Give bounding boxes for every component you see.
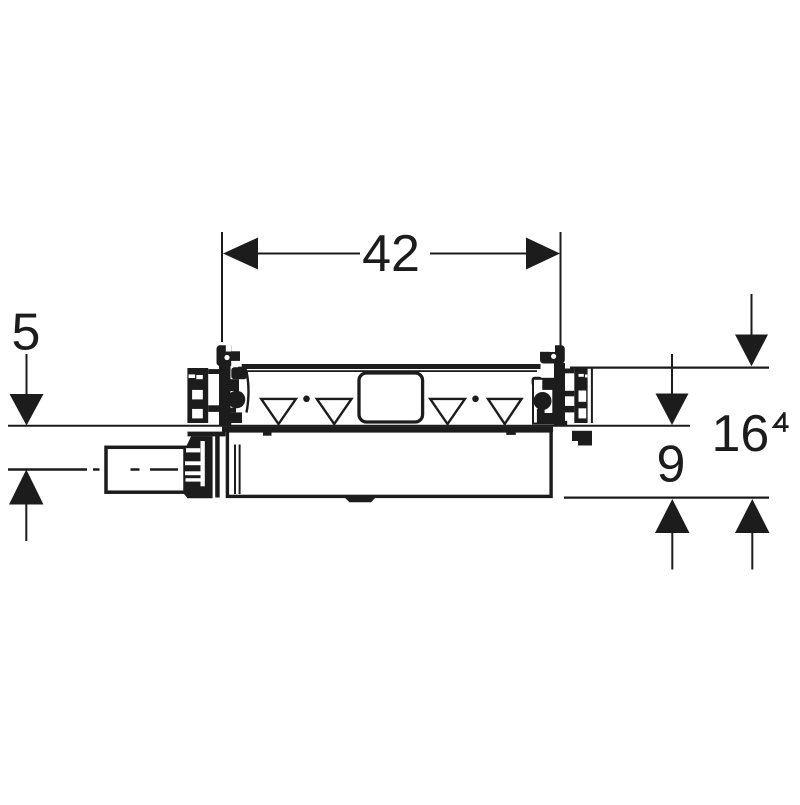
left bracket plate top piece	[231, 367, 247, 379]
housing bottom bump	[342, 495, 378, 502]
bottom extension line	[564, 497, 769, 499]
left bracket knob corner cut bottom	[231, 361, 242, 367]
finished floor reference line	[8, 425, 690, 427]
left bracket vertical bar	[219, 366, 231, 426]
fitting slit 2	[185, 461, 201, 465]
upper frame bottom edge	[222, 427, 553, 433]
funnel triangle 2	[317, 399, 352, 424]
fitting slit 1	[186, 448, 200, 452]
dimension 42 right arrowhead	[526, 238, 560, 270]
left bracket lower blob	[229, 412, 242, 423]
fitting coupling ring	[215, 433, 220, 498]
dimension 164 superscript	[774, 412, 788, 432]
dimension 164 upper arrow tail	[751, 294, 753, 336]
left rail slit b	[196, 375, 203, 379]
dimension 9 lower tail	[671, 533, 673, 570]
dimension 164 lower tail	[751, 533, 753, 570]
right bracket wall rail	[574, 368, 587, 423]
right bracket vertical bar	[554, 363, 565, 426]
dimension 42 right extension line	[560, 232, 562, 347]
dimension 5 arrow tail	[26, 354, 28, 397]
dimension 164 top extension line	[570, 367, 769, 369]
left bracket wall rail	[187, 368, 208, 423]
right bracket knob dot	[551, 354, 556, 359]
right bracket hinge circle	[534, 392, 552, 410]
dimension 42 line right segment	[430, 253, 528, 255]
right bracket bolt	[532, 377, 543, 387]
dimension 164 down arrowhead	[735, 335, 768, 367]
right rail hole 2	[579, 408, 587, 418]
housing seam line 1	[234, 445, 236, 495]
right bracket plate outline	[533, 379, 553, 424]
lower housing	[227, 431, 551, 497]
inspection window	[359, 373, 423, 422]
right bracket knob notch	[550, 344, 555, 352]
upper frame inner line	[237, 370, 537, 372]
svg-text:42: 42	[362, 225, 420, 283]
fitting slit 4	[186, 478, 204, 481]
right bracket foot	[572, 431, 592, 441]
left rail hole 2	[192, 409, 203, 419]
right rail lip line	[591, 369, 593, 424]
right bracket knob corner cut	[538, 343, 550, 352]
funnel triangle 1	[261, 399, 296, 424]
right bracket bridge mid	[565, 391, 575, 397]
supply pipe	[106, 447, 185, 492]
right bracket top arm	[542, 378, 553, 390]
right bracket bridge top	[565, 369, 575, 374]
right bracket bridge low	[565, 406, 575, 413]
left bracket bridge mid	[208, 405, 220, 412]
right rail slit a	[579, 374, 584, 377]
funnel triangle 4	[488, 399, 522, 424]
dimension 5 lower tail	[25, 504, 27, 541]
dimension 9 up arrowhead	[655, 499, 690, 533]
left bracket knob corner cut top	[231, 344, 242, 352]
right rail hole 1	[579, 391, 587, 402]
left bracket knob notch	[226, 344, 231, 352]
rivet dot right	[472, 396, 479, 403]
left rail hole 1	[192, 390, 203, 400]
dimension 9 arrow tail	[671, 354, 673, 394]
left bracket right curve	[247, 372, 249, 413]
svg-text:16: 16	[712, 405, 770, 463]
right bracket foot step	[578, 441, 592, 446]
upper frame top edge	[238, 364, 541, 369]
left bracket pivot arm	[226, 379, 239, 391]
funnel triangle 3	[430, 399, 465, 424]
pipe centerline	[8, 468, 178, 470]
left bracket knob	[217, 345, 241, 366]
frame foot tab left	[263, 430, 272, 435]
svg-text:9: 9	[657, 436, 686, 494]
left rail slit a	[189, 374, 196, 378]
frame foot tab right	[506, 430, 516, 435]
dimension 164 up arrowhead	[735, 499, 770, 533]
dimension 42 left extension line	[221, 232, 223, 342]
right bracket lower blob	[537, 413, 554, 423]
drain fitting body	[184, 436, 213, 498]
left bracket hinge circle	[228, 391, 246, 409]
right bracket below-circle piece	[537, 409, 545, 414]
housing seam line 2	[239, 445, 241, 495]
right rail slit b	[585, 375, 587, 378]
svg-text:5: 5	[12, 304, 41, 362]
dimension 9 down arrowhead	[656, 394, 689, 426]
dimension 5 down arrowhead	[10, 394, 44, 426]
rivet dot left	[303, 396, 310, 403]
dimension 42 left arrowhead	[223, 238, 258, 270]
dimension 5 up arrowhead	[9, 470, 44, 505]
left bracket bar foot	[224, 421, 231, 426]
right bracket knob	[540, 345, 565, 363]
left bracket below-circle piece	[229, 408, 236, 413]
dimension 42 line left segment	[256, 253, 360, 255]
left bracket knob dot	[224, 355, 229, 360]
left bracket bridge top	[208, 369, 220, 374]
drain fitting top bar	[188, 432, 226, 437]
right bracket bar foot	[555, 421, 568, 426]
fitting slit 3	[185, 471, 202, 475]
fitting vertical slit	[201, 441, 205, 486]
